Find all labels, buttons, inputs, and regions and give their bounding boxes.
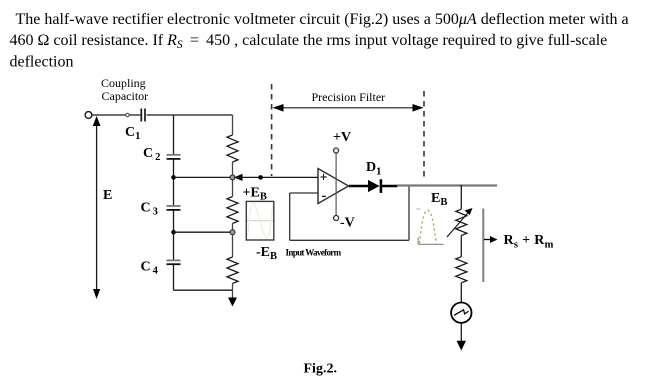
svg-text:460 Ω coil resistance. If RS: 460 Ω coil resistance. If RS = 450 , cal… bbox=[10, 32, 608, 51]
svg-text:The half-wave rectifier electr: The half-wave rectifier electronic voltm… bbox=[16, 11, 629, 28]
feedback wire left bbox=[289, 193, 291, 240]
dashed boundary left bbox=[271, 84, 273, 176]
svg-text:+: + bbox=[320, 170, 328, 185]
feedback wire bottom bbox=[290, 239, 409, 241]
node dot C2-C3 bbox=[171, 175, 176, 180]
leader dot bbox=[126, 113, 129, 116]
svg-text:deflection: deflection bbox=[10, 53, 74, 70]
wire tap to op-amp bbox=[234, 176, 318, 178]
resistor Rm bbox=[456, 257, 467, 283]
wire C1 to ladder bbox=[147, 114, 233, 116]
capacitor C2 bbox=[167, 154, 181, 156]
svg-text:+V: +V bbox=[333, 130, 351, 145]
wire bbox=[460, 236, 462, 257]
meter M bbox=[451, 303, 471, 323]
+V terminal bbox=[334, 148, 339, 153]
capacitor C4 bbox=[167, 259, 181, 261]
resistor R2 bbox=[227, 197, 238, 224]
wire minus input bbox=[290, 192, 318, 194]
wire node1 horizontal bbox=[174, 176, 233, 178]
E measure arrow bbox=[96, 124, 98, 292]
resistor R1 bbox=[227, 135, 238, 162]
svg-text:-: - bbox=[322, 188, 327, 204]
svg-text:Input Waveform: Input Waveform bbox=[286, 248, 342, 258]
ground bbox=[457, 341, 467, 351]
tap node dot bbox=[230, 175, 235, 180]
bracket arrow bbox=[484, 239, 493, 241]
feedback wire right bbox=[408, 186, 410, 240]
wire to ground arrow bbox=[232, 284, 234, 299]
input terminal bbox=[85, 112, 92, 119]
svg-text:Precision Filter: Precision Filter bbox=[312, 90, 386, 104]
diode D1 bbox=[368, 180, 380, 192]
op-amp output wire bbox=[349, 185, 369, 188]
-V terminal bbox=[334, 216, 339, 221]
svg-text:Fig.2.: Fig.2. bbox=[304, 362, 337, 377]
output waveform axis bbox=[417, 238, 419, 245]
node dot R2-R3 bbox=[230, 230, 235, 235]
variable resistor Rs bbox=[456, 209, 467, 235]
input waveform box bbox=[246, 201, 273, 240]
svg-text:Capacitor: Capacitor bbox=[102, 89, 149, 103]
op-amp U1 bbox=[318, 169, 349, 204]
wire input to C1 bbox=[92, 114, 141, 116]
capacitor C1 bbox=[140, 109, 142, 122]
op-amp power rail bbox=[335, 153, 337, 216]
span arrow bbox=[278, 107, 418, 109]
tap arrow bbox=[234, 174, 243, 181]
wire to meter bbox=[460, 283, 462, 303]
node A dot bbox=[258, 175, 263, 180]
bracket bar bbox=[482, 209, 484, 283]
output wire bbox=[397, 184, 497, 186]
wire node2 horizontal bbox=[174, 231, 233, 233]
half-wave pulse bbox=[420, 210, 437, 243]
wire bbox=[232, 224, 234, 258]
capacitor chain vertical wire bbox=[173, 115, 175, 154]
wire below meter bbox=[460, 323, 462, 342]
branch wire down bbox=[460, 185, 462, 209]
svg-text:-V: -V bbox=[340, 216, 355, 231]
bottom wire bbox=[174, 289, 233, 291]
svg-text:Coupling: Coupling bbox=[101, 76, 146, 90]
resistor R3 bbox=[227, 257, 238, 284]
resistor chain vertical wire bbox=[232, 115, 234, 135]
svg-text:E: E bbox=[103, 188, 112, 203]
dashed boundary right bbox=[423, 91, 425, 179]
capacitor C3 bbox=[167, 205, 181, 207]
node dot C3-C4 bbox=[171, 230, 176, 235]
wire bbox=[232, 162, 234, 197]
ground bbox=[228, 298, 237, 307]
